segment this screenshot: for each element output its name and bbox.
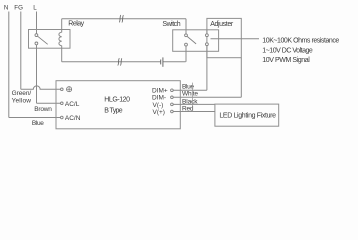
wire N vertical — [8, 12, 10, 118]
svg-text:Blue: Blue — [32, 120, 44, 127]
adjuster pointer line — [211, 38, 260, 40]
svg-text:Black: Black — [182, 98, 198, 105]
relay coil K1 — [59, 32, 62, 46]
wire top rail (coil to switch) — [62, 18, 186, 20]
wire drop from top rail into switch — [185, 19, 187, 34]
wire coil bottom connector — [61, 46, 63, 62]
svg-text:N: N — [4, 4, 8, 11]
terminal DIM- circle — [171, 96, 174, 99]
svg-text:V(+): V(+) — [153, 109, 165, 116]
svg-text:Switch: Switch — [162, 21, 180, 28]
wire coil top connector — [61, 19, 63, 33]
HLG-120 driver box U1 — [56, 81, 180, 129]
wire FG horizontal with hop over brown riser — [21, 86, 61, 89]
protective earth symbol — [67, 87, 72, 92]
svg-text:DIM-: DIM- — [152, 95, 166, 102]
switch box — [173, 30, 219, 52]
switch pole B bottom terminal — [206, 43, 209, 46]
svg-text:HLG-120: HLG-120 — [104, 96, 130, 103]
terminal FG circle — [61, 88, 64, 91]
svg-text:LED Lighting Fixture: LED Lighting Fixture — [219, 112, 276, 119]
wire DIM+ blue riser — [206, 46, 208, 91]
wire FG vertical — [20, 12, 22, 90]
wire L vertical into relay — [36, 12, 38, 34]
terminal AC/L circle — [61, 102, 64, 105]
svg-text:V(-): V(-) — [153, 102, 164, 109]
terminal V(-) circle — [171, 103, 174, 106]
terminal AC/N circle — [61, 116, 64, 119]
wire label table edge — [191, 83, 193, 112]
svg-text:White: White — [182, 91, 198, 98]
switch pole A top terminal — [185, 34, 188, 37]
LED lighting fixture box — [215, 104, 279, 126]
svg-text:FG: FG — [14, 4, 23, 11]
wire V(-) black to LED box — [173, 103, 215, 105]
svg-text:10V PWM Signal: 10V PWM Signal — [262, 57, 310, 64]
svg-text:AC/N: AC/N — [65, 115, 81, 122]
relay contact bottom terminal — [35, 42, 38, 45]
relay contact top terminal — [35, 34, 38, 37]
relay box — [29, 30, 71, 49]
svg-text:B Type: B Type — [104, 107, 122, 114]
svg-text:Green/: Green/ — [12, 90, 32, 97]
wire bottom rail (coil to switch via battery) — [62, 61, 161, 63]
svg-text:DIM+: DIM+ — [152, 88, 168, 95]
break mark on bottom rail — [118, 58, 122, 65]
svg-text:AC/L: AC/L — [65, 101, 80, 108]
wire pole B top stub — [206, 30, 208, 34]
battery cell in bottom rail: short plate — [160, 60, 162, 65]
switch pole A bottom terminal — [185, 43, 188, 46]
svg-text:10K~100K Ohms resistance: 10K~100K Ohms resistance — [262, 37, 339, 44]
relay contact blade — [38, 36, 48, 44]
switch blade — [187, 37, 196, 44]
wire V(+) red to LED box — [173, 111, 215, 113]
wire from relay contact bottom down to AC/L — [36, 45, 38, 104]
terminal DIM+ circle — [171, 89, 174, 92]
terminal V(+) circle — [171, 110, 174, 113]
wire DIM- white riser — [240, 58, 242, 98]
battery cell: long plate — [162, 57, 164, 66]
svg-text:Adjuster: Adjuster — [210, 21, 234, 28]
svg-text:Yellow: Yellow — [12, 97, 32, 104]
svg-text:L: L — [33, 4, 37, 11]
svg-text:Brown: Brown — [34, 106, 52, 113]
adjuster box — [207, 18, 241, 57]
switch pole B top terminal — [206, 34, 209, 37]
wire DIM- to riser — [173, 96, 241, 98]
wire switch pole A bottom drop to rail — [185, 46, 187, 62]
wire N horizontal to AC/N — [9, 117, 61, 119]
break mark on top rail — [119, 15, 123, 22]
wire AC/L horizontal — [37, 102, 61, 104]
svg-text:Relay: Relay — [68, 20, 84, 27]
svg-text:1~10V DC Voltage: 1~10V DC Voltage — [262, 47, 313, 54]
wire DIM+ to riser — [173, 89, 207, 91]
